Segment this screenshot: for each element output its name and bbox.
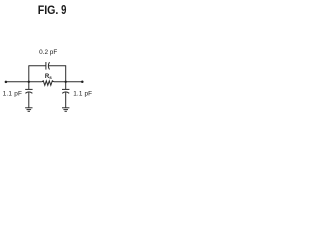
svg-text:Rs: Rs — [45, 74, 52, 80]
svg-text:0.2 pF: 0.2 pF — [39, 49, 57, 56]
svg-text:1.1 pF: 1.1 pF — [73, 90, 92, 97]
svg-text:9: 9 — [61, 2, 66, 17]
svg-text:1.1 pF: 1.1 pF — [3, 91, 23, 98]
svg-text:FIG.: FIG. — [38, 3, 59, 17]
